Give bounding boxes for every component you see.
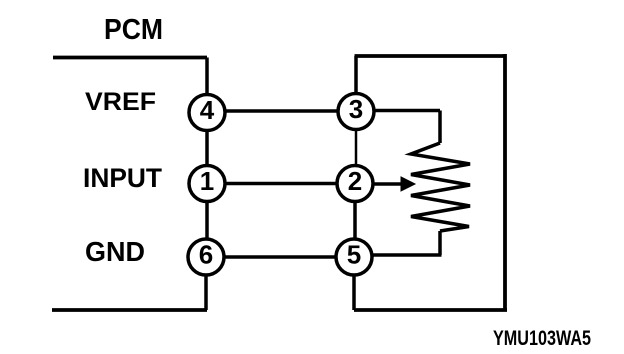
svg-text:2: 2 <box>348 166 362 196</box>
wire: PCM connector top edge <box>53 56 207 60</box>
resistor (sensing element zigzag) <box>411 143 470 231</box>
wire: sensor case right edge <box>503 54 507 310</box>
wire: GND, pin 6 to pin 5 <box>224 255 336 259</box>
wire: sensor case bottom edge <box>354 308 507 312</box>
wire: resistor bottom lead <box>438 231 442 255</box>
pin 2 (sensor signal terminal) <box>337 166 373 202</box>
pin 5 (sensor ground terminal) <box>336 239 372 275</box>
wire: drop from top edge to pin 4 <box>205 58 209 94</box>
wire: sensor case top edge <box>355 54 506 58</box>
wire: resistor bottom lead to pin 5 <box>372 253 442 257</box>
wire: pin 4 to pin 1 <box>205 131 209 166</box>
svg-text:PCM: PCM <box>104 14 163 46</box>
svg-text:YMU103WA5: YMU103WA5 <box>493 327 591 350</box>
svg-text:VREF: VREF <box>85 88 156 116</box>
wire: pin 5 down to sensor case bottom <box>352 275 356 310</box>
pin 3 (sensor VREF terminal) <box>338 94 374 130</box>
wire: pin 3 to resistor top lead <box>374 109 440 113</box>
svg-text:6: 6 <box>199 240 213 270</box>
svg-text:INPUT: INPUT <box>83 163 162 193</box>
wire: VREF, pin 4 to pin 3 <box>225 109 338 113</box>
pin 6 (PCM GND terminal) <box>188 239 224 275</box>
wire: pin 1 to pin 6 <box>205 202 209 240</box>
wire: pin 6 down to PCM bottom edge <box>204 275 208 310</box>
svg-text:4: 4 <box>200 95 215 125</box>
svg-text:5: 5 <box>347 240 361 270</box>
svg-text:3: 3 <box>349 94 363 124</box>
wire: resistor top lead <box>438 111 442 144</box>
wire: pin 2 to pin 5 <box>353 202 357 240</box>
wire: pin 3 up to sensor case top <box>354 56 358 94</box>
wiper arrowhead <box>401 177 415 191</box>
pin 4 (PCM VREF terminal) <box>189 95 225 131</box>
svg-text:1: 1 <box>200 166 214 196</box>
wiper arrow from pin 2 into resistor <box>373 182 402 186</box>
pin 1 (PCM INPUT terminal) <box>189 166 225 202</box>
wire: INPUT, pin 1 to pin 2 <box>225 182 337 186</box>
wire: pin 3 to pin 2 <box>355 130 358 166</box>
wire: PCM connector bottom edge <box>52 308 207 312</box>
svg-text:GND: GND <box>85 236 145 267</box>
